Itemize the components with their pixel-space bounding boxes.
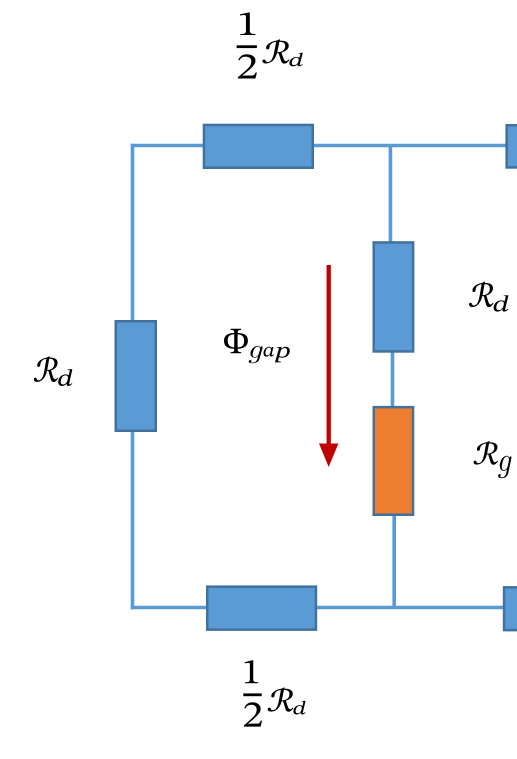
wire left vertical (131, 144, 135, 610)
resistor Rd middle branch (374, 242, 413, 351)
resistor right bottom (partial, clipped at edge) (504, 587, 517, 630)
reluctance Rg air gap (orange) (374, 407, 413, 515)
wire middle branch lower segment (392, 514, 396, 609)
resistor 1/2 Rd top (204, 125, 313, 168)
wire middle branch upper segment (389, 146, 393, 245)
label Rd (right of middle blue resistor) (469, 282, 508, 312)
label 1/2 Rd (bottom): fraction (243, 660, 305, 726)
label 1/2 Rd (top): fraction one (237, 13, 303, 79)
wire middle branch between Rd and Rg (391, 351, 395, 408)
label Rd (left of left resistor) (34, 356, 73, 386)
resistor right top (partial, clipped at edge) (507, 125, 517, 167)
wire bottom horizontal (131, 606, 517, 610)
label Rg (right of orange resistor) (474, 441, 512, 478)
resistor 1/2 Rd bottom (207, 587, 316, 630)
flux arrow Phi_gap (red, pointing down) (319, 265, 338, 467)
label Phi_gap (gap flux) (224, 329, 290, 363)
resistor Rd left (116, 321, 156, 431)
wire top horizontal (131, 144, 517, 148)
